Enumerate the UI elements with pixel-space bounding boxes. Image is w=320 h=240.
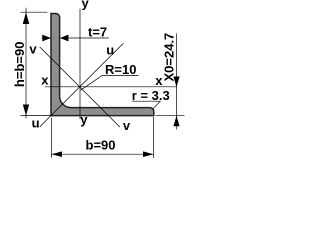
- dimension X0 bottom arrow: [173, 116, 179, 127]
- leader r=3.3: [132, 101, 160, 109]
- leader R=10: [81, 75, 139, 90]
- dimension h=b=90 arrow up: [23, 12, 30, 24]
- y axis: [79, 9, 81, 119]
- dimension t=7 left arrow: [42, 35, 51, 42]
- dimension t=7 right arrow: [60, 35, 69, 42]
- dimension b=90 extension right: [153, 117, 155, 158]
- svg-text:t=7: t=7: [88, 24, 107, 39]
- dimension b=90 extension left: [50, 118, 52, 158]
- dimension b=90 line: [51, 153, 153, 155]
- v axis: [40, 47, 120, 127]
- dimension b=90 left arrow: [52, 151, 63, 157]
- svg-text:r = 3.3: r = 3.3: [132, 88, 170, 103]
- dimension h=b=90 line: [25, 8, 27, 119]
- svg-text:X0=24.7: X0=24.7: [161, 33, 176, 82]
- svg-text:y: y: [82, 0, 90, 11]
- svg-text:b=90: b=90: [86, 137, 116, 152]
- dimension h=b=90 extension line top: [21, 11, 48, 13]
- svg-text:y: y: [80, 112, 88, 127]
- svg-text:R=10: R=10: [105, 62, 136, 77]
- dimension h=b=90 arrow down: [23, 105, 29, 116]
- dimension X0 bottom extension: [156, 115, 185, 117]
- x axis: [45, 86, 177, 88]
- svg-text:u: u: [32, 115, 40, 130]
- svg-text:x: x: [155, 73, 163, 88]
- dimension b=90 right arrow: [143, 151, 154, 157]
- svg-text:v: v: [29, 42, 37, 57]
- dimension t=7 shelf: [60, 37, 109, 39]
- dimension t=7 left tail: [42, 37, 51, 39]
- svg-text:u: u: [106, 43, 114, 58]
- dimension X0 top arrow: [173, 77, 179, 88]
- dimension X0 line: [176, 34, 178, 130]
- u axis: [40, 43, 124, 127]
- angle profile: [51, 14, 154, 116]
- dimension h=b=90 extension line bottom: [21, 115, 51, 117]
- svg-text:h=b=90: h=b=90: [12, 42, 27, 88]
- svg-text:v: v: [123, 118, 131, 133]
- svg-text:x: x: [41, 73, 49, 88]
